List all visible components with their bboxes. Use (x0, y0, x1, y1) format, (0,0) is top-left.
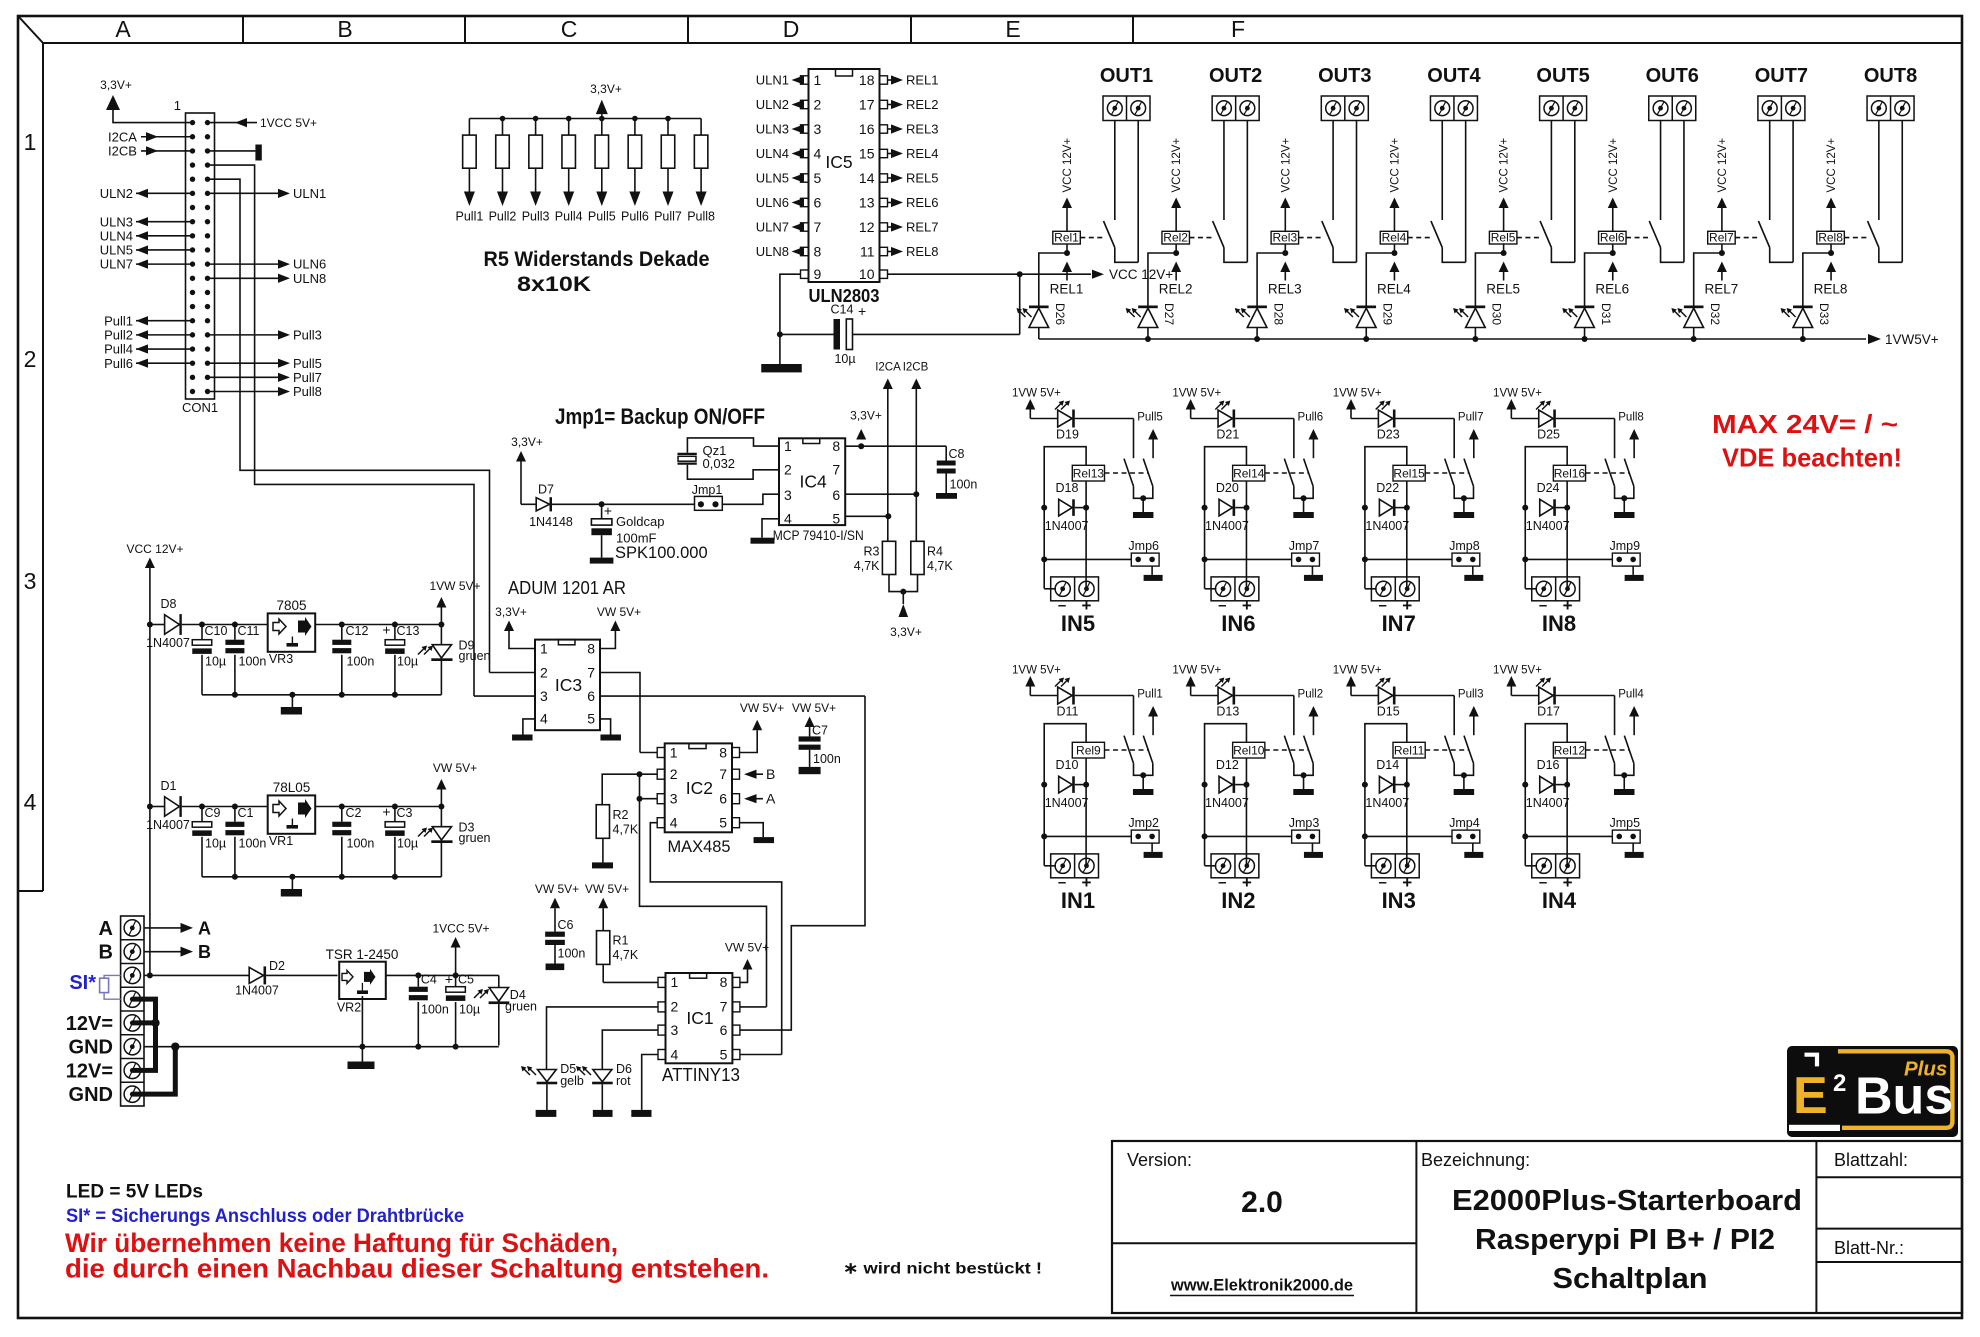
svg-text:OUT6: OUT6 (1646, 65, 1699, 87)
svg-text:REL7: REL7 (906, 220, 939, 235)
svg-text:6: 6 (720, 1022, 728, 1038)
svg-text:ULN2: ULN2 (756, 97, 789, 112)
svg-text:GND: GND (69, 1084, 113, 1106)
svg-text:100n: 100n (813, 752, 841, 766)
svg-text:ADUM 1201 AR: ADUM 1201 AR (508, 578, 626, 598)
svg-text:gruen: gruen (459, 649, 491, 663)
svg-text:Pull2: Pull2 (1298, 689, 1324, 701)
svg-text:7: 7 (587, 664, 595, 680)
svg-text:D18: D18 (1056, 481, 1079, 495)
svg-text:Rel3: Rel3 (1272, 231, 1297, 245)
svg-text:Pull5: Pull5 (293, 356, 322, 371)
svg-text:Pull1: Pull1 (104, 313, 133, 328)
svg-text:F: F (1231, 16, 1245, 42)
svg-text:Jmp7: Jmp7 (1289, 539, 1320, 553)
svg-text:D14: D14 (1376, 758, 1399, 772)
svg-text:6: 6 (832, 487, 840, 503)
svg-text:ULN6: ULN6 (756, 195, 789, 210)
svg-text:1N4007: 1N4007 (235, 983, 279, 997)
svg-text:IN4: IN4 (1542, 888, 1577, 913)
svg-text:REL2: REL2 (1159, 282, 1193, 297)
svg-text:1N4007: 1N4007 (1045, 796, 1089, 810)
svg-text:2: 2 (670, 766, 678, 782)
svg-text:C3: C3 (397, 806, 413, 820)
svg-text:VW 5V+: VW 5V+ (535, 882, 579, 896)
svg-text:1N4007: 1N4007 (1205, 796, 1249, 810)
svg-text:10µ: 10µ (205, 655, 226, 669)
svg-text:D10: D10 (1056, 758, 1079, 772)
svg-text:MAX 24V= / ~: MAX 24V= / ~ (1712, 409, 1898, 439)
svg-text:4,7K: 4,7K (854, 559, 880, 573)
svg-text:ULN7: ULN7 (756, 220, 789, 235)
svg-text:Pull2: Pull2 (104, 327, 133, 342)
svg-text:C9: C9 (205, 806, 221, 820)
svg-text:D12: D12 (1216, 758, 1239, 772)
svg-text:IN3: IN3 (1382, 888, 1416, 913)
svg-text:OUT4: OUT4 (1427, 65, 1481, 87)
svg-text:D30: D30 (1490, 303, 1504, 325)
svg-text:1VCC 5V+: 1VCC 5V+ (432, 922, 489, 936)
svg-text:Blattzahl:: Blattzahl: (1834, 1150, 1908, 1170)
svg-text:1VW 5V+: 1VW 5V+ (1493, 388, 1542, 400)
svg-text:ULN8: ULN8 (756, 244, 789, 259)
svg-text:100n: 100n (239, 655, 267, 669)
svg-text:C11: C11 (238, 624, 260, 638)
svg-text:Rel11: Rel11 (1394, 743, 1425, 757)
svg-text:ULN5: ULN5 (100, 243, 133, 258)
svg-text:1VW 5V+: 1VW 5V+ (1333, 665, 1382, 677)
svg-text:REL8: REL8 (1814, 282, 1848, 297)
svg-text:D25: D25 (1537, 428, 1560, 442)
svg-text:C10: C10 (205, 624, 228, 638)
svg-text:VW 5V+: VW 5V+ (725, 941, 769, 955)
svg-text:C5: C5 (458, 973, 474, 987)
svg-text:9: 9 (814, 266, 822, 282)
svg-text:1VW 5V+: 1VW 5V+ (1172, 665, 1221, 677)
svg-text:IC2: IC2 (686, 778, 713, 798)
svg-text:REL1: REL1 (1050, 282, 1084, 297)
svg-text:7: 7 (832, 462, 840, 478)
svg-text:3: 3 (671, 1022, 679, 1038)
svg-text:C2: C2 (346, 806, 362, 820)
svg-text:D: D (783, 16, 800, 42)
svg-text:2: 2 (784, 462, 792, 478)
svg-text:Rasperypi PI B+ / PI2: Rasperypi PI B+ / PI2 (1475, 1224, 1775, 1256)
svg-text:gelb: gelb (560, 1074, 584, 1088)
svg-text:Rel7: Rel7 (1709, 231, 1734, 245)
svg-text:2: 2 (24, 346, 37, 372)
svg-text:Pull1: Pull1 (1137, 689, 1163, 701)
svg-text:6: 6 (814, 195, 822, 211)
svg-text:Pull6: Pull6 (1298, 412, 1324, 424)
svg-text:A: A (99, 918, 113, 940)
svg-text:D21: D21 (1216, 428, 1239, 442)
svg-text:IN5: IN5 (1061, 611, 1095, 636)
svg-text:12: 12 (859, 219, 875, 235)
svg-text:Jmp3: Jmp3 (1289, 816, 1320, 830)
svg-text:D24: D24 (1537, 481, 1560, 495)
svg-text:8: 8 (832, 438, 840, 454)
svg-text:REL5: REL5 (1486, 282, 1520, 297)
svg-text:D22: D22 (1376, 481, 1399, 495)
svg-text:6: 6 (719, 791, 727, 807)
svg-text:5: 5 (719, 815, 727, 831)
svg-text:Rel13: Rel13 (1073, 466, 1105, 480)
svg-text:OUT7: OUT7 (1755, 65, 1808, 87)
svg-text:3: 3 (540, 688, 548, 704)
svg-text:I2CB: I2CB (108, 144, 137, 159)
svg-text:OUT1: OUT1 (1100, 65, 1153, 87)
svg-text:7: 7 (719, 766, 727, 782)
svg-text:Pull8: Pull8 (687, 210, 715, 224)
svg-text:Rel9: Rel9 (1076, 743, 1101, 757)
svg-text:D32: D32 (1708, 303, 1722, 325)
svg-text:I2CA: I2CA (108, 129, 137, 144)
svg-text:10µ: 10µ (834, 352, 855, 366)
svg-text:VCC 12V+: VCC 12V+ (1171, 138, 1183, 193)
svg-text:D27: D27 (1162, 303, 1176, 325)
svg-text:R4: R4 (927, 545, 943, 559)
svg-text:18: 18 (859, 72, 875, 88)
svg-text:ULN3: ULN3 (756, 122, 789, 137)
svg-text:10µ: 10µ (459, 1003, 480, 1017)
svg-text:ULN4: ULN4 (100, 228, 133, 243)
svg-text:100n: 100n (347, 655, 375, 669)
svg-text:R2: R2 (613, 808, 629, 822)
svg-text:IC3: IC3 (555, 675, 582, 695)
svg-text:1N4148: 1N4148 (529, 515, 573, 529)
svg-text:Rel15: Rel15 (1393, 466, 1425, 480)
svg-text:Pull3: Pull3 (293, 327, 322, 342)
svg-text:R1: R1 (613, 934, 629, 948)
svg-text:D31: D31 (1599, 303, 1613, 325)
svg-text:Rel14: Rel14 (1233, 466, 1265, 480)
svg-text:4: 4 (540, 711, 548, 727)
svg-text:3,3V+: 3,3V+ (495, 605, 527, 619)
svg-text:0,032: 0,032 (703, 456, 736, 471)
svg-text:4: 4 (670, 815, 678, 831)
svg-text:VCC 12V+: VCC 12V+ (1826, 138, 1838, 193)
svg-text:1: 1 (670, 744, 678, 760)
svg-text:1: 1 (784, 438, 792, 454)
svg-text:7805: 7805 (276, 598, 306, 613)
svg-text:3,3V+: 3,3V+ (890, 625, 922, 639)
svg-text:1VW 5V+: 1VW 5V+ (1493, 665, 1542, 677)
svg-text:5: 5 (720, 1046, 728, 1062)
svg-text:78L05: 78L05 (273, 780, 311, 795)
svg-text:I2CB: I2CB (903, 362, 929, 374)
svg-text:1VW 5V+: 1VW 5V+ (1012, 665, 1061, 677)
svg-text:Jmp5: Jmp5 (1609, 816, 1640, 830)
svg-text:C1: C1 (238, 806, 254, 820)
svg-text:1N4007: 1N4007 (146, 818, 190, 832)
svg-text:1N4007: 1N4007 (1365, 796, 1409, 810)
svg-text:1N4007: 1N4007 (1526, 519, 1570, 533)
svg-text:IC5: IC5 (825, 152, 852, 172)
svg-text:REL2: REL2 (906, 97, 939, 112)
svg-text:I2CA: I2CA (875, 362, 901, 374)
svg-text:17: 17 (859, 97, 875, 113)
svg-text:gruen: gruen (505, 1000, 537, 1014)
svg-text:10µ: 10µ (205, 837, 226, 851)
svg-text:SI*: SI* (69, 972, 96, 994)
svg-text:TSR 1-2450: TSR 1-2450 (326, 947, 399, 962)
svg-text:REL7: REL7 (1705, 282, 1739, 297)
svg-text:REL3: REL3 (906, 122, 939, 137)
svg-text:VCC 12V+: VCC 12V+ (1109, 267, 1173, 282)
svg-text:E: E (1793, 1067, 1828, 1125)
svg-text:Pull4: Pull4 (104, 342, 133, 357)
svg-text:LED = 5V LEDs: LED = 5V LEDs (66, 1182, 203, 1203)
svg-text:IN7: IN7 (1382, 611, 1416, 636)
svg-text:R3: R3 (864, 545, 880, 559)
svg-text:D26: D26 (1053, 303, 1067, 325)
svg-text:D33: D33 (1817, 303, 1831, 325)
svg-text:A: A (766, 791, 776, 807)
svg-text:100n: 100n (558, 947, 586, 961)
svg-text:8: 8 (720, 974, 728, 990)
svg-text:Rel1: Rel1 (1054, 231, 1079, 245)
svg-text:B: B (766, 766, 775, 782)
svg-text:die durch einen Nachbau dieser: die durch einen Nachbau dieser Schaltung… (65, 1254, 769, 1284)
svg-text:REL3: REL3 (1268, 282, 1302, 297)
svg-text:Jmp1: Jmp1 (692, 483, 723, 497)
svg-text:Pull7: Pull7 (293, 370, 322, 385)
svg-text:VCC 12V+: VCC 12V+ (1499, 138, 1511, 193)
svg-text:Pull1: Pull1 (456, 210, 484, 224)
svg-text:OUT3: OUT3 (1318, 65, 1371, 87)
svg-text:IN8: IN8 (1542, 611, 1576, 636)
svg-text:VCC 12V+: VCC 12V+ (1608, 138, 1620, 193)
svg-text:3: 3 (814, 121, 822, 137)
svg-text:D17: D17 (1537, 705, 1560, 719)
svg-text:D20: D20 (1216, 481, 1239, 495)
svg-text:10µ: 10µ (397, 655, 418, 669)
svg-text:1: 1 (814, 72, 822, 88)
svg-text:E: E (1005, 16, 1020, 42)
svg-text:Pull7: Pull7 (1458, 412, 1484, 424)
svg-text:Goldcap: Goldcap (616, 514, 664, 529)
svg-text:OUT8: OUT8 (1864, 65, 1917, 87)
svg-text:C13: C13 (397, 624, 420, 638)
svg-text:www.Elektronik2000.de: www.Elektronik2000.de (1170, 1277, 1353, 1295)
svg-text:100n: 100n (421, 1003, 449, 1017)
svg-text:REL6: REL6 (1595, 282, 1629, 297)
svg-text:3,3V+: 3,3V+ (511, 435, 543, 449)
svg-text:gruen: gruen (459, 831, 491, 845)
svg-text:Pull6: Pull6 (621, 210, 649, 224)
svg-text:REL8: REL8 (906, 244, 939, 259)
svg-text:1: 1 (671, 974, 679, 990)
svg-text:4,7K: 4,7K (613, 823, 639, 837)
svg-text:8: 8 (719, 744, 727, 760)
svg-text:VCC 12V+: VCC 12V+ (1062, 138, 1074, 193)
svg-text:Rel5: Rel5 (1491, 231, 1516, 245)
svg-text:1: 1 (174, 98, 181, 113)
svg-text:2: 2 (540, 664, 548, 680)
svg-text:4: 4 (784, 511, 792, 527)
svg-text:2: 2 (1833, 1070, 1846, 1097)
svg-text:1: 1 (24, 129, 37, 155)
svg-text:D15: D15 (1377, 705, 1400, 719)
svg-text:100n: 100n (347, 837, 375, 851)
svg-text:1N4007: 1N4007 (1205, 519, 1249, 533)
svg-text:VDE beachten!: VDE beachten! (1722, 443, 1902, 473)
svg-text:IC4: IC4 (799, 472, 827, 492)
svg-text:3: 3 (670, 791, 678, 807)
svg-text:VR1: VR1 (269, 834, 293, 848)
svg-text:Jmp9: Jmp9 (1609, 539, 1640, 553)
svg-text:REL5: REL5 (906, 171, 939, 186)
svg-text:3,3V+: 3,3V+ (100, 78, 132, 92)
svg-text:ULN8: ULN8 (293, 271, 326, 286)
svg-text:5: 5 (587, 711, 595, 727)
svg-text:C12: C12 (346, 624, 369, 638)
svg-text:MAX485: MAX485 (668, 838, 731, 856)
svg-text:8: 8 (814, 244, 822, 260)
svg-text:Pull5: Pull5 (1137, 412, 1163, 424)
svg-text:ULN2: ULN2 (100, 186, 133, 201)
svg-text:D2: D2 (269, 959, 285, 973)
svg-text:A: A (198, 918, 211, 938)
svg-text:Jmp2: Jmp2 (1128, 816, 1159, 830)
svg-text:Bezeichnung:: Bezeichnung: (1421, 1150, 1530, 1170)
svg-text:D28: D28 (1271, 303, 1285, 325)
svg-text:3: 3 (784, 487, 792, 503)
svg-text:2: 2 (814, 97, 822, 113)
svg-text:ULN1: ULN1 (293, 186, 326, 201)
svg-text:D13: D13 (1216, 705, 1239, 719)
svg-text:8x10K: 8x10K (517, 273, 591, 296)
svg-text:Jmp8: Jmp8 (1449, 539, 1480, 553)
svg-text:12V=: 12V= (66, 1060, 113, 1082)
svg-text:13: 13 (859, 195, 875, 211)
svg-text:5: 5 (832, 511, 840, 527)
svg-text:C8: C8 (949, 447, 965, 461)
svg-text:ULN1: ULN1 (756, 73, 789, 88)
svg-text:VW 5V+: VW 5V+ (740, 701, 784, 715)
svg-text:REL4: REL4 (906, 146, 939, 161)
svg-text:Pull2: Pull2 (489, 210, 517, 224)
svg-text:Pull6: Pull6 (104, 356, 133, 371)
svg-text:3,3V+: 3,3V+ (590, 82, 622, 96)
svg-text:Pull8: Pull8 (293, 384, 322, 399)
svg-text:MCP 79410-I/SN: MCP 79410-I/SN (773, 527, 864, 543)
svg-text:C: C (561, 16, 578, 42)
svg-text:Pull8: Pull8 (1618, 412, 1644, 424)
svg-text:Rel10: Rel10 (1233, 743, 1265, 757)
svg-text:Schaltplan: Schaltplan (1553, 1263, 1708, 1295)
svg-text:IN6: IN6 (1221, 611, 1255, 636)
svg-text:C14: C14 (831, 303, 854, 317)
svg-text:10µ: 10µ (397, 837, 418, 851)
svg-text:+: + (445, 971, 453, 987)
svg-text:1VW 5V+: 1VW 5V+ (1172, 388, 1221, 400)
svg-text:+: + (382, 804, 390, 820)
svg-text:15: 15 (859, 146, 875, 162)
svg-text:ULN3: ULN3 (100, 214, 133, 229)
svg-text:3,3V+: 3,3V+ (850, 409, 882, 423)
svg-text:REL1: REL1 (906, 73, 939, 88)
svg-text:7: 7 (814, 219, 822, 235)
svg-text:1N4007: 1N4007 (1365, 519, 1409, 533)
svg-text:4: 4 (24, 789, 37, 815)
svg-text:IC1: IC1 (686, 1008, 713, 1028)
svg-text:8: 8 (587, 640, 595, 656)
svg-text:+: + (858, 303, 866, 319)
svg-text:Blatt-Nr.:: Blatt-Nr.: (1834, 1238, 1904, 1258)
svg-text:Pull4: Pull4 (555, 210, 583, 224)
svg-text:VCC 12V+: VCC 12V+ (126, 542, 183, 556)
svg-text:ATTINY13: ATTINY13 (662, 1064, 740, 1085)
svg-text:+: + (382, 622, 390, 638)
svg-text:11: 11 (860, 244, 875, 260)
svg-text:1: 1 (540, 640, 548, 656)
svg-text:1VW5V+: 1VW5V+ (1885, 332, 1939, 347)
svg-text:VR3: VR3 (269, 652, 293, 666)
svg-text:ULN6: ULN6 (293, 257, 326, 272)
svg-text:REL6: REL6 (906, 195, 939, 210)
svg-text:2.0: 2.0 (1241, 1186, 1283, 1219)
svg-text:16: 16 (859, 121, 875, 137)
svg-text:REL4: REL4 (1377, 282, 1411, 297)
svg-text:4,7K: 4,7K (927, 559, 953, 573)
svg-text:GND: GND (69, 1037, 113, 1059)
svg-text:VW 5V+: VW 5V+ (585, 882, 629, 896)
svg-text:R5 Widerstands Dekade: R5 Widerstands Dekade (484, 248, 710, 271)
svg-text:2: 2 (671, 999, 679, 1015)
svg-text:C6: C6 (558, 918, 574, 932)
svg-text:Pull7: Pull7 (654, 210, 682, 224)
svg-text:1N4007: 1N4007 (146, 636, 190, 650)
svg-text:12V=: 12V= (66, 1013, 113, 1035)
svg-text:VCC 12V+: VCC 12V+ (1280, 138, 1292, 193)
svg-text:B: B (99, 942, 113, 964)
svg-text:SI* = Sicherungs Anschluss ode: SI* = Sicherungs Anschluss oder Drahtbrü… (66, 1206, 464, 1227)
svg-text:6: 6 (587, 688, 595, 704)
svg-text:D8: D8 (161, 597, 177, 611)
svg-text:Jmp1= Backup ON/OFF: Jmp1= Backup ON/OFF (555, 404, 765, 429)
svg-text:ULN5: ULN5 (756, 171, 789, 186)
svg-text:D23: D23 (1377, 428, 1400, 442)
svg-text:Pull3: Pull3 (1458, 689, 1484, 701)
svg-text:1N4007: 1N4007 (1045, 519, 1089, 533)
svg-text:Rel4: Rel4 (1382, 231, 1407, 245)
svg-text:1VCC 5V+: 1VCC 5V+ (260, 116, 317, 130)
svg-text:1VW 5V+: 1VW 5V+ (1012, 388, 1061, 400)
svg-text:Rel2: Rel2 (1163, 231, 1188, 245)
svg-text:Jmp4: Jmp4 (1449, 816, 1480, 830)
svg-text:7: 7 (720, 999, 728, 1015)
svg-text:5: 5 (814, 170, 822, 186)
svg-text:VW 5V+: VW 5V+ (433, 761, 477, 775)
svg-text:1VW 5V+: 1VW 5V+ (429, 579, 480, 593)
svg-text:Rel16: Rel16 (1554, 466, 1586, 480)
svg-text:CON1: CON1 (182, 400, 218, 415)
svg-text:C7: C7 (812, 724, 828, 738)
svg-text:SPK100.000: SPK100.000 (615, 544, 708, 562)
svg-text:D29: D29 (1380, 303, 1394, 325)
svg-text:OUT5: OUT5 (1536, 65, 1589, 87)
svg-text:D11: D11 (1056, 705, 1078, 719)
svg-text:Version:: Version: (1127, 1150, 1192, 1170)
svg-text:4: 4 (814, 146, 822, 162)
svg-text:Jmp6: Jmp6 (1128, 539, 1159, 553)
svg-text:VW 5V+: VW 5V+ (792, 701, 836, 715)
svg-text:VCC 12V+: VCC 12V+ (1717, 138, 1729, 193)
svg-text:14: 14 (859, 170, 875, 186)
svg-text:4,7K: 4,7K (613, 948, 639, 962)
